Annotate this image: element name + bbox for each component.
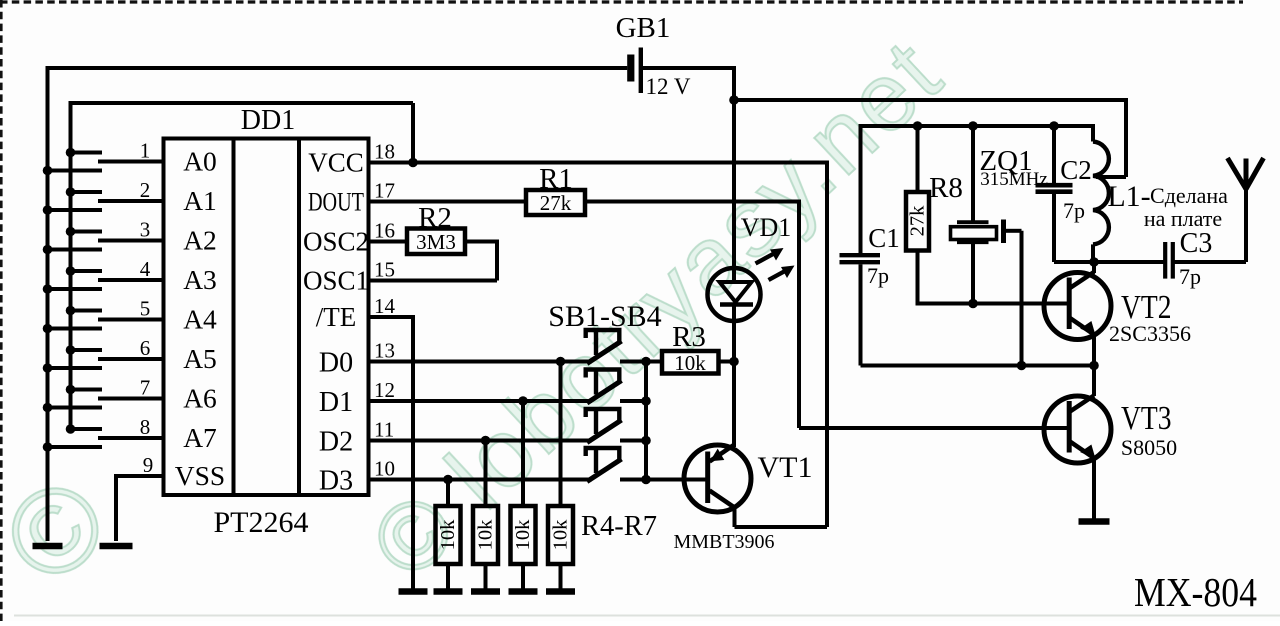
resistor R7 10k xyxy=(548,506,573,564)
pin 7 A6 wire and jumper pads xyxy=(46,376,217,414)
svg-text:4: 4 xyxy=(140,257,151,281)
wire D0 to resistor R7 xyxy=(559,362,563,507)
svg-text:10k: 10k xyxy=(550,519,572,551)
node ZQ1 top xyxy=(968,121,978,131)
ground (R7) xyxy=(546,588,575,595)
node VCC pin18 xyxy=(408,158,418,168)
wire R7 to ground xyxy=(559,564,563,591)
svg-text:18: 18 xyxy=(374,140,395,164)
wire R6 to ground xyxy=(521,564,525,591)
svg-text:VT1: VT1 xyxy=(758,451,813,484)
wire +12V down through VD1 to VT1 xyxy=(732,100,736,447)
wire VT3 emitter to ground xyxy=(1092,458,1096,520)
IC DD1 PT2264 body xyxy=(164,105,369,539)
wire R4 to ground xyxy=(446,564,450,591)
wire +12V rail to RF tap corner xyxy=(734,98,1126,177)
svg-text:A1: A1 xyxy=(183,185,217,216)
resistor R2 xyxy=(407,202,465,254)
svg-text:R4-R7: R4-R7 xyxy=(581,511,657,542)
node pad 7 upper xyxy=(66,385,76,395)
pin 14 /TE wire to ground xyxy=(369,315,414,591)
pin 12 D1 label xyxy=(319,378,395,418)
node pad 4 upper xyxy=(66,266,76,276)
node SB3 common xyxy=(641,436,651,446)
inductor L1 (tapped coil) xyxy=(1093,124,1228,262)
wire left ground bus xyxy=(46,66,50,541)
pin 12 D1 wire to button SB2 xyxy=(369,399,593,403)
wire D3 to resistor R4 xyxy=(446,480,450,507)
svg-text:7p: 7p xyxy=(1179,264,1201,289)
svg-text:VT3: VT3 xyxy=(1121,400,1172,437)
svg-text:16: 16 xyxy=(374,219,395,243)
svg-text:6: 6 xyxy=(140,336,151,360)
svg-text:VSS: VSS xyxy=(175,460,225,491)
svg-text:A5: A5 xyxy=(183,343,217,374)
node ZQ1 bottom xyxy=(968,299,978,309)
pin 15 OSC1 label xyxy=(303,258,395,296)
pin 5 A4 wire and jumper pads xyxy=(46,297,218,335)
svg-text:17: 17 xyxy=(374,179,395,203)
pin 11 D2 label xyxy=(319,418,394,458)
node pad 8 upper xyxy=(66,424,76,434)
svg-text:D1: D1 xyxy=(319,387,353,418)
wire C3 to antenna xyxy=(1174,260,1246,264)
svg-text:2: 2 xyxy=(140,178,151,202)
svg-text:S8050: S8050 xyxy=(1121,435,1177,460)
button SB4 xyxy=(584,448,649,482)
node pad 7 lower xyxy=(43,403,53,413)
svg-text:GB1: GB1 xyxy=(616,12,671,44)
svg-text:D0: D0 xyxy=(319,348,353,379)
svg-text:Сделана: Сделана xyxy=(1150,183,1228,208)
node D3 R4 xyxy=(443,475,453,485)
LED VD1 xyxy=(708,213,795,321)
resistor R8 xyxy=(906,126,963,251)
node pad 5 lower xyxy=(43,324,53,334)
node pad 4 lower xyxy=(43,284,53,294)
svg-text:12 V: 12 V xyxy=(646,74,691,99)
wire D1 to resistor R6 xyxy=(521,401,525,506)
node pad 8 lower xyxy=(43,442,53,452)
resistor R1 xyxy=(526,163,585,215)
node D0 R7 xyxy=(556,357,566,367)
svg-text:OSC1: OSC1 xyxy=(303,266,369,296)
wire R2 to pin 15 OSC1 xyxy=(369,240,498,281)
ground (R6) xyxy=(509,588,538,595)
svg-text:5: 5 xyxy=(140,297,151,321)
svg-text:10k: 10k xyxy=(674,351,706,375)
button SB1 xyxy=(584,330,649,364)
wire R5 to ground xyxy=(484,564,488,591)
svg-text:7p: 7p xyxy=(1063,198,1085,223)
node +12V junction xyxy=(729,95,739,105)
svg-text:C1: C1 xyxy=(868,223,900,253)
wire R1 to VT3 base xyxy=(585,200,1067,429)
svg-text:10k: 10k xyxy=(475,519,497,551)
node C2 top xyxy=(1049,121,1059,131)
node R8 top xyxy=(913,121,923,131)
transistor VT1 MMBT3906 xyxy=(673,445,812,554)
pin 10 D3 wire to button SB4 xyxy=(369,478,593,482)
wire VT2 collector node to C3 xyxy=(1094,260,1164,264)
svg-text:9: 9 xyxy=(143,453,154,477)
pin 17 DOUT wire to R1 xyxy=(369,200,527,204)
node pad 5 upper xyxy=(66,306,76,316)
pin 13 D0 label xyxy=(319,339,395,379)
ground (/TE) xyxy=(399,588,428,595)
svg-text:A6: A6 xyxy=(183,383,217,414)
wire D2 to resistor R5 xyxy=(484,441,488,507)
wire bus to VT3 collector xyxy=(1092,366,1096,397)
svg-text:10k: 10k xyxy=(437,519,459,551)
node pad 6 lower xyxy=(43,363,53,373)
svg-text:11: 11 xyxy=(374,418,394,442)
wire RF top bus xyxy=(861,124,1094,128)
node pad 6 upper xyxy=(66,345,76,355)
svg-text:8: 8 xyxy=(140,415,151,439)
node SB2 common xyxy=(641,396,651,406)
svg-text:R1: R1 xyxy=(539,163,573,195)
wire R8 bottom to VT2 base xyxy=(916,251,1068,304)
wire battery plus to +12V node xyxy=(643,66,734,100)
pin 9 VSS wire to ground xyxy=(116,453,225,541)
button SB2 xyxy=(584,370,649,404)
svg-text:14: 14 xyxy=(374,294,396,318)
ground (VT3) xyxy=(1079,518,1110,525)
wire R3 to VD1 cathode line xyxy=(719,360,735,364)
svg-text:DOUT: DOUT xyxy=(308,187,364,217)
wire emitter bus xyxy=(861,364,1095,368)
wire VT1 collector to VCC riser xyxy=(735,509,828,527)
ground (VSS) xyxy=(100,543,133,550)
ground (R4) xyxy=(434,588,463,595)
svg-text:C2: C2 xyxy=(1060,155,1092,185)
antenna xyxy=(1228,158,1264,262)
wire VT2 emitter to bus xyxy=(1092,334,1096,366)
ground (left bus) xyxy=(33,543,63,550)
svg-text:A7: A7 xyxy=(183,422,217,453)
node pad 3 lower xyxy=(43,245,53,255)
capacitor C1 xyxy=(840,124,900,366)
pin 10 D3 label xyxy=(319,457,395,497)
node pad 3 upper xyxy=(66,227,76,237)
svg-text:1: 1 xyxy=(140,139,151,163)
pin 14 /TE label xyxy=(316,294,396,332)
svg-text:3: 3 xyxy=(140,218,151,242)
node pad 2 lower xyxy=(43,205,53,215)
svg-text:VCC: VCC xyxy=(308,148,364,178)
svg-text:R8: R8 xyxy=(929,172,963,204)
pin 18 VCC wire xyxy=(369,161,828,165)
wire L1 bottom to VT2 collector xyxy=(1092,262,1096,273)
pin 3 A2 wire and jumper pads xyxy=(46,218,217,256)
wire VCC bus upper loop xyxy=(71,101,414,430)
wire battery minus to left ground bus xyxy=(46,66,628,70)
button SB3 xyxy=(584,409,649,443)
svg-text:OSC2: OSC2 xyxy=(303,227,369,257)
resistor R4 10k xyxy=(436,506,461,564)
svg-text:10: 10 xyxy=(374,457,395,481)
pin 17 DOUT label xyxy=(308,179,395,217)
svg-text:VD1: VD1 xyxy=(741,213,792,242)
svg-text:R2: R2 xyxy=(418,202,452,234)
svg-text:A0: A0 xyxy=(183,146,217,177)
svg-text:DD1: DD1 xyxy=(241,105,295,136)
svg-text:PT2264: PT2264 xyxy=(213,506,308,539)
wire button common line to VT1 base xyxy=(646,362,706,480)
pin 16 OSC2 label xyxy=(303,219,395,257)
node ZQ1 case to emitter bus xyxy=(1017,361,1027,371)
svg-text:7: 7 xyxy=(140,376,151,400)
pin 13 D0 wire to button SB1 xyxy=(369,360,593,364)
node VT2 emitter / VT3 collector xyxy=(1089,361,1099,371)
pin 4 A3 wire and jumper pads xyxy=(46,257,217,295)
svg-text:12: 12 xyxy=(374,378,395,402)
pin 6 A5 wire and jumper pads xyxy=(46,336,217,374)
pin 8 A7 wire and jumper pads xyxy=(46,415,217,453)
node D2 R5 xyxy=(481,436,491,446)
node SB4 common xyxy=(641,475,651,485)
node SB1 common xyxy=(641,357,651,367)
node pad 1 upper xyxy=(66,148,76,158)
wire common to R3 xyxy=(646,360,662,364)
node L1 bottom / VT2 collector xyxy=(1089,257,1099,267)
pin 11 D2 wire to button SB3 xyxy=(369,439,593,443)
svg-text:A4: A4 xyxy=(183,304,217,335)
transistor VT2 2SC3356 xyxy=(1044,272,1191,346)
pin 18 VCC label xyxy=(308,140,395,178)
svg-text:C3: C3 xyxy=(1180,228,1213,259)
wire VCC down to VT1 collector xyxy=(825,161,829,528)
capacitor C3 xyxy=(1165,228,1212,289)
crystal ZQ1 315MHz xyxy=(951,126,1048,366)
svg-text:2SC3356: 2SC3356 xyxy=(1109,321,1191,346)
node D1 R6 xyxy=(518,396,528,406)
svg-text:10k: 10k xyxy=(512,519,534,551)
svg-text:7p: 7p xyxy=(867,263,889,288)
resistor R6 10k xyxy=(511,506,536,564)
svg-text:A3: A3 xyxy=(183,264,217,295)
capacitor C2 xyxy=(1036,126,1095,262)
node pad 1 lower xyxy=(43,166,53,176)
pin 2 A1 wire and jumper pads xyxy=(46,178,217,216)
battery GB1 xyxy=(616,12,691,99)
svg-text:R3: R3 xyxy=(672,321,706,353)
node R3 output xyxy=(729,357,739,367)
svg-text:13: 13 xyxy=(374,339,395,363)
svg-text:MX-804: MX-804 xyxy=(1134,569,1257,615)
resistor R5 10k xyxy=(473,506,498,564)
pin 16 OSC2 wire to R2 xyxy=(369,240,408,244)
svg-text:D3: D3 xyxy=(319,466,353,497)
svg-text:15: 15 xyxy=(374,258,395,282)
node pad 2 upper xyxy=(66,187,76,197)
transistor VT3 S8050 xyxy=(1044,396,1177,464)
svg-text:/TE: /TE xyxy=(316,302,357,332)
svg-text:MMBT3906: MMBT3906 xyxy=(673,531,774,553)
pin 1 A0 wire and jumper pads xyxy=(46,139,217,177)
svg-text:D2: D2 xyxy=(319,427,353,458)
svg-text:A2: A2 xyxy=(183,225,217,256)
svg-text:27k: 27k xyxy=(907,205,929,237)
ground (R5) xyxy=(471,588,500,595)
resistor R3 xyxy=(662,321,719,375)
